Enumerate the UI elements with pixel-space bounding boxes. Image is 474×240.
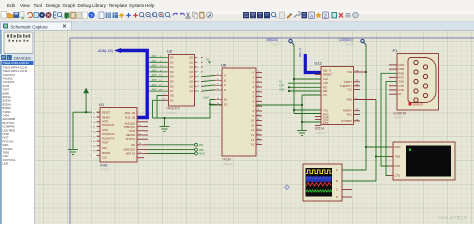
svg-text:DSR: DSR [399, 67, 405, 71]
svg-text:AD5: AD5 [152, 78, 158, 82]
svg-text:B: B [224, 78, 226, 82]
svg-text:CSDN @千里之外: CSDN @千里之外 [438, 215, 468, 220]
wire U2 LE to gnd rail [153, 100, 163, 118]
svg-text:CTS: CTS [399, 84, 405, 88]
wire U12 RxD down to terminal TXD and scope B [375, 100, 388, 182]
svg-text:RI: RI [399, 92, 402, 96]
toolbar [0, 10, 474, 22]
wire E junction to U5 E1 E2 [203, 96, 214, 106]
svg-text:View: View [20, 3, 31, 8]
svg-text:TxEMPTY: TxEMPTY [340, 84, 352, 88]
svg-text:RTS: RTS [399, 75, 405, 79]
svg-text:<TEXT>: <TEXT> [166, 111, 177, 115]
svg-text:HOLD/GT1: HOLD/GT1 [102, 124, 115, 127]
svg-text:Design: Design [46, 3, 61, 8]
svg-text:Graph: Graph [63, 3, 76, 8]
svg-text:DTR: DTR [399, 88, 405, 92]
svg-text:DEN/S2: DEN/S2 [126, 134, 136, 137]
ground G1 [68, 150, 78, 155]
transistor terminal VT1 [388, 142, 455, 180]
wire U1 M/IO to terminal [148, 153, 195, 155]
watermark [438, 215, 468, 220]
svg-text:<TEXT>: <TEXT> [393, 116, 404, 120]
svg-text:14: 14 [251, 138, 254, 142]
wire probe U10 down to terminal RXD and scope A [365, 45, 388, 170]
svg-text:TEST: TEST [102, 142, 109, 145]
svg-text:INTA/S1: INTA/S1 [126, 138, 136, 141]
wire scope A to net [342, 169, 366, 171]
node A1 junction [206, 58, 211, 64]
wire U1 RD to terminal [148, 144, 195, 146]
svg-text:AD0: AD0 [152, 54, 158, 58]
svg-text:Q0: Q0 [189, 56, 193, 60]
DB9 graphic [408, 58, 436, 103]
DEVICES header [0, 54, 35, 61]
svg-text:A: A [224, 74, 226, 78]
svg-text:DT/R: DT/R [129, 130, 135, 133]
svg-text:CTS: CTS [395, 174, 401, 178]
svg-text:D[0..7]: D[0..7] [323, 69, 331, 73]
svg-text:P1: P1 [393, 48, 399, 53]
wire probe U9 down [293, 45, 295, 114]
svg-text:CLK: CLK [323, 77, 328, 81]
node M/IO terminal [195, 152, 206, 156]
svg-text:D: D [336, 195, 338, 199]
svg-text:74HC373: 74HC373 [166, 107, 180, 111]
svg-text:10: 10 [251, 119, 254, 123]
svg-text:Help: Help [145, 3, 155, 8]
svg-text:AD6: AD6 [152, 83, 158, 87]
svg-text:Schematic Capture: Schematic Capture [11, 24, 49, 29]
svg-text:?: ? [90, 13, 93, 18]
svg-text:A1: A1 [279, 80, 283, 84]
diode U5 74154 [214, 63, 262, 166]
svg-text:E2: E2 [224, 102, 228, 106]
node cursor marker [285, 185, 289, 189]
svg-text:D3: D3 [170, 70, 174, 74]
transistor U2 74HC373 [162, 49, 203, 116]
svg-text:RXD: RXD [399, 71, 405, 75]
svg-text:TXD: TXD [399, 80, 404, 84]
svg-text:AD1: AD1 [152, 59, 158, 63]
node junction gnd rail [163, 117, 165, 119]
svg-text:U12: U12 [315, 61, 323, 66]
svg-text:Q2: Q2 [189, 65, 193, 69]
svg-text:WR/LOCK: WR/LOCK [123, 148, 135, 151]
svg-text:Q3: Q3 [189, 70, 193, 74]
svg-text:<TEXT>: <TEXT> [344, 42, 355, 46]
svg-text:TXC: TXC [323, 109, 328, 113]
power VCC [83, 88, 89, 113]
svg-text:C: C [336, 188, 338, 192]
svg-text:RD: RD [199, 143, 203, 147]
device list [2, 61, 34, 65]
svg-text:Tool: Tool [34, 3, 42, 8]
svg-text:U5: U5 [221, 63, 227, 68]
svg-text:AD7: AD7 [152, 88, 158, 92]
svg-text:U2: U2 [167, 49, 173, 54]
node WR terminal [195, 148, 204, 152]
svg-text:D: D [224, 88, 226, 92]
svg-text:<TEXT>: <TEXT> [222, 162, 233, 166]
svg-text:IO/M: IO/M [203, 96, 209, 100]
svg-text:TxD: TxD [347, 70, 352, 74]
svg-text:B: B [336, 179, 338, 183]
svg-text:OE: OE [170, 94, 174, 98]
svg-text:D5: D5 [170, 80, 174, 84]
svg-text:<TEXT>: <TEXT> [100, 168, 111, 172]
svg-text:Z: Z [324, 13, 327, 19]
svg-text:TxC: TxC [347, 88, 352, 92]
node RD terminal [195, 143, 204, 147]
svg-text:A[16..19]: A[16..19] [125, 117, 135, 120]
wire Q4-Q7 to U5 ABCD [203, 76, 215, 92]
svg-text:BHE/QS1: BHE/QS1 [124, 126, 135, 129]
node probe U10 [339, 38, 366, 46]
wire U12 C/D RD WR stubs [288, 83, 321, 91]
svg-text:RESET: RESET [323, 73, 332, 77]
wire probe to U12 CLK [293, 78, 321, 80]
svg-text:M/IO: M/IO [199, 152, 206, 156]
svg-text:Q1: Q1 [189, 60, 193, 64]
bus main AD bus [114, 48, 147, 118]
svg-text:Q4: Q4 [189, 75, 193, 79]
svg-text:U1: U1 [99, 102, 105, 107]
svg-text:Q6: Q6 [189, 84, 193, 88]
svg-text:A: A [336, 168, 338, 172]
svg-text:RTS: RTS [395, 164, 401, 168]
svg-text:M/IO-S2: M/IO-S2 [126, 152, 136, 155]
svg-text:SYNDET: SYNDET [341, 119, 352, 123]
svg-text:AD[..7]: AD[..7] [298, 48, 302, 57]
svg-text:RXD: RXD [395, 145, 401, 149]
svg-text:AD4: AD4 [152, 73, 158, 77]
svg-text:INTR: INTR [102, 129, 108, 132]
capacitor C0 bus tap wires AD0-AD7 to U2 [149, 58, 169, 92]
resistor P1 COMPIM [389, 48, 439, 120]
svg-text:READY: READY [102, 116, 111, 119]
svg-text:Template: Template [109, 3, 128, 8]
svg-text:CS: CS [323, 93, 327, 97]
svg-text:C/D: C/D [323, 81, 328, 85]
wire probe to U12 TXC RXC [293, 109, 321, 114]
svg-text:CLK: CLK [102, 157, 107, 160]
preview pane [4, 32, 33, 54]
node probe U9 [266, 38, 294, 46]
svg-text:LE: LE [170, 98, 173, 102]
svg-text:CTS: CTS [323, 121, 329, 125]
svg-text:RxRDY: RxRDY [343, 109, 352, 113]
svg-text:AD2: AD2 [152, 64, 158, 68]
svg-text:E1: E1 [224, 98, 228, 102]
svg-text:D0: D0 [170, 56, 174, 60]
svg-text:<TEXT>: <TEXT> [315, 131, 326, 135]
transistor U12 8251A [315, 61, 377, 135]
svg-text:Library: Library [92, 3, 107, 8]
svg-text:LED: LED [3, 162, 9, 166]
wire gnd rail horizontal [153, 105, 211, 118]
svg-text:ADB[..15]: ADB[..15] [98, 49, 113, 53]
svg-text:Q5: Q5 [189, 80, 193, 84]
svg-text:Edit: Edit [7, 3, 16, 8]
svg-text:RxD: RxD [347, 98, 352, 102]
ground G2 [160, 118, 170, 132]
wire scope B to net [342, 180, 376, 182]
wire U1 WR to terminal [148, 149, 195, 151]
wire VCC to U1 RESET [73, 111, 100, 113]
wire P1 TXD down to terminal CTS [386, 82, 397, 176]
svg-text:IOR: IOR [279, 84, 284, 88]
ground G3 [297, 131, 307, 136]
svg-text:D7: D7 [170, 89, 174, 93]
svg-text:D2: D2 [170, 65, 174, 69]
bus AD[0..7] to U12 [298, 48, 321, 72]
svg-text:DEVICES: DEVICES [14, 56, 31, 60]
svg-text:D1: D1 [170, 60, 174, 64]
svg-text:<TEXT>: <TEXT> [271, 42, 282, 46]
svg-text:NMI: NMI [102, 147, 107, 150]
wire U1 RESET rail to ground [72, 112, 74, 149]
svg-text:13: 13 [251, 133, 254, 137]
svg-text:Debug: Debug [78, 3, 92, 8]
node AD labels [152, 54, 158, 92]
wire U2 OE to gnd rail [157, 96, 162, 119]
svg-text:RD: RD [131, 144, 135, 147]
svg-text:AD3: AD3 [152, 68, 158, 72]
svg-text:A1: A1 [206, 58, 210, 62]
svg-text:MN/MX: MN/MX [102, 152, 111, 155]
node IOR IOW labels [279, 80, 290, 93]
svg-text:RESET: RESET [102, 112, 111, 115]
op-amp U1 8086 [92, 102, 149, 172]
wire gnd rail to U12 area [210, 104, 302, 106]
svg-text:WR: WR [323, 89, 328, 93]
svg-text:15: 15 [251, 143, 254, 147]
wire P1 RXD down to terminal RTS [381, 73, 397, 166]
svg-text:RD: RD [323, 85, 327, 89]
wire sheet border [70, 38, 474, 224]
svg-text:HOLD/GT0: HOLD/GT0 [102, 133, 115, 136]
svg-text:RLDA/GT5: RLDA/GT5 [102, 138, 115, 141]
svg-text:D6: D6 [170, 84, 174, 88]
wire gnd rail to ground G3 [301, 95, 321, 130]
svg-text:RxC: RxC [347, 113, 352, 117]
svg-text:L: L [8, 56, 10, 60]
svg-text:Q7: Q7 [189, 89, 193, 93]
svg-text:AD[0..15]: AD[0..15] [125, 112, 136, 115]
svg-text:ERROR: ERROR [413, 103, 423, 107]
svg-text:TXD: TXD [395, 155, 401, 159]
svg-text:D4: D4 [170, 75, 174, 79]
oscilloscope scope1 [303, 164, 352, 201]
svg-text:C: C [224, 83, 226, 87]
svg-text:DCD: DCD [399, 63, 405, 67]
svg-text:TxRDY: TxRDY [343, 80, 352, 84]
svg-text:System: System [129, 3, 144, 8]
svg-text:12: 12 [251, 128, 254, 132]
svg-text:IOW: IOW [279, 87, 285, 91]
tab bar [0, 22, 474, 31]
bus ADB[0..15] arrow label [98, 49, 113, 53]
